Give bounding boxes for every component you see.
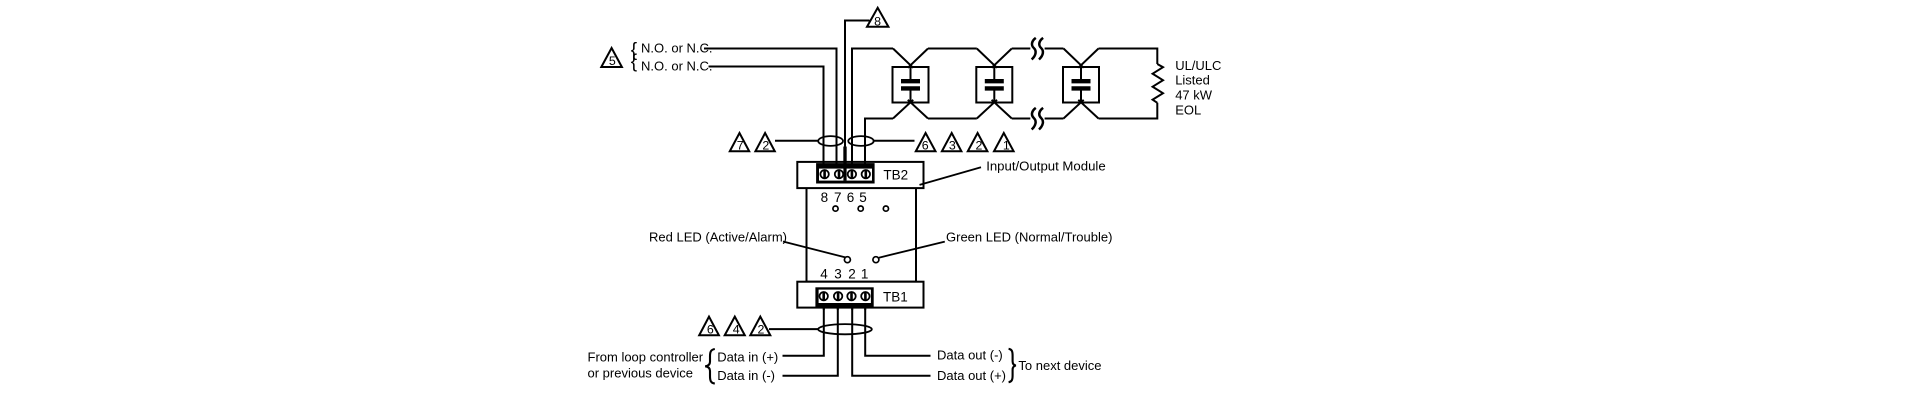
wire bottom break to EOL3 [1045,118,1064,120]
svg-text:Listed: Listed [1175,73,1210,88]
leader line red LED [783,242,845,258]
bold shield wire into TB2 [843,147,846,181]
green LED [873,257,879,263]
wire TB2 terminal 6 to EOL chain top [852,49,893,167]
callout triangle 1 [994,133,1014,153]
svg-text:8: 8 [874,15,881,29]
svg-text:Input/Output Module: Input/Output Module [986,158,1105,173]
TB2 black block [816,163,875,183]
callout triangle 6 [916,133,936,153]
TB1 screw terminal 4 [820,292,828,301]
callout triangle 2b [968,133,988,153]
callout triangle 2 [755,133,774,153]
svg-text:1: 1 [1003,139,1010,153]
module body [807,187,917,281]
EOL device 3 (capacitor in box) [1063,49,1099,119]
config hole 1 [833,206,838,211]
terminal block TB1 outer [797,282,923,308]
svg-text:4: 4 [733,323,740,337]
wire TB1 terminal 4 to Data in plus [783,300,824,356]
wire N.O.1 to TB2 terminal 7 [704,49,837,167]
TB1 wires exit [824,303,865,310]
TB2 screw terminal 5 [862,170,870,179]
svg-text:TB2: TB2 [883,167,908,182]
TB2 screw terminal 8 [820,170,828,179]
terminal block TB2 outer [797,162,923,188]
svg-text:2: 2 [757,323,764,337]
callout triangle 3 [942,133,962,153]
callout triangle 8 [867,8,888,29]
TB2 screw terminal 6 [848,170,856,179]
wire top break to EOL3 [1045,48,1064,50]
TB1 screw terminal 2 [847,292,855,301]
big brace left [705,349,715,384]
bold shield wire through TB2 [843,147,846,181]
EOL device 1 (capacitor in box) [893,49,929,119]
wire N.O.2 to TB2 terminal 8 [709,67,824,167]
callout triangle 4 bottom [725,317,745,337]
pin numbers 8 7 6 5 [821,190,867,205]
callout triangle 6 bottom [699,317,719,337]
svg-text:7: 7 [834,190,842,205]
cable grouping oval left [818,136,843,146]
wires re-enter TB2 (over white rect) [824,160,866,168]
svg-text:Data out (+): Data out (+) [937,368,1006,383]
wire TB2 terminal 5 to EOL chain bottom [865,119,893,167]
svg-text:2: 2 [848,267,856,282]
break symbol bottom wire [1032,108,1043,130]
svg-text:Red LED (Active/Alarm): Red LED (Active/Alarm) [649,230,787,245]
svg-text:7: 7 [737,139,744,153]
svg-text:4: 4 [820,267,828,282]
callout triangle 2 bottom [750,317,770,337]
svg-text:Data in (+): Data in (+) [717,350,778,365]
callout triangle 5 [601,48,622,68]
break symbol top wire [1032,38,1043,60]
svg-text:N.O. or N.C.: N.O. or N.C. [641,58,713,73]
cable grouping oval bottom [818,324,872,334]
svg-text:or previous device: or previous device [588,365,694,380]
config hole 3 [883,206,888,211]
svg-text:6: 6 [847,190,855,205]
leader line bottom triangles to cable [769,328,819,330]
wire resistor bottom to EOL3 bottom [1099,103,1158,119]
label UL/ULC Listed 47 kW EOL [1175,58,1221,118]
leader line cable to right triangles [873,140,915,142]
svg-text:To next device: To next device [1018,358,1101,373]
svg-text:TB1: TB1 [883,289,908,304]
pin numbers 4 3 2 1 [820,267,868,282]
wire top between EOL1 and EOL2 [928,48,977,50]
svg-text:UL/ULC: UL/ULC [1175,58,1221,73]
svg-text:3: 3 [834,267,842,282]
svg-text:EOL: EOL [1175,103,1201,118]
svg-text:3: 3 [949,139,956,153]
leader line green LED [879,242,945,258]
svg-text:6: 6 [707,323,714,337]
svg-text:From loop controller: From loop controller [588,350,704,365]
wire top EOL2 to break [1012,48,1031,50]
wire EOL3 top to resistor [1099,49,1158,65]
wire TB1 terminal 2 to Data out plus [852,300,930,376]
cable grouping oval right [848,136,873,146]
svg-text:1: 1 [861,267,869,282]
TB1 black block [815,287,873,307]
big brace right [1009,349,1016,382]
config hole 2 [858,206,863,211]
wire bottom between EOL1 and EOL2 [928,118,977,120]
svg-text:2: 2 [976,139,983,153]
TB1 screw terminal 3 [834,292,842,301]
TB1 screw terminal 1 [861,292,869,301]
svg-text:5: 5 [609,54,616,68]
svg-text:47 kW: 47 kW [1175,88,1213,103]
svg-text:Data in (-): Data in (-) [717,368,775,383]
wire from triangle 8 down between ovals [845,21,870,147]
leader line Input/Output Module [920,167,982,185]
resistor EOL 47k [1153,64,1163,103]
svg-text:{: { [631,51,638,72]
svg-text:Green LED (Normal/Trouble): Green LED (Normal/Trouble) [946,230,1112,245]
svg-text:N.O. or N.C.: N.O. or N.C. [641,41,713,56]
svg-text:Data out (-): Data out (-) [937,348,1003,363]
wire bottom EOL2 to break [1012,118,1031,120]
EOL device 2 (capacitor in box) [976,49,1012,119]
callout triangle 7 [730,133,749,153]
svg-text:8: 8 [821,190,829,205]
red LED [844,257,850,263]
svg-text:6: 6 [922,139,929,153]
leader line left triangles to cable [775,140,818,142]
svg-text:5: 5 [859,190,867,205]
wire TB1 terminal 3 to Data in minus [783,300,838,376]
svg-text:2: 2 [762,139,769,153]
TB2 screw terminal 7 [835,170,843,179]
wire TB1 terminal 1 to Data out minus [865,300,930,356]
